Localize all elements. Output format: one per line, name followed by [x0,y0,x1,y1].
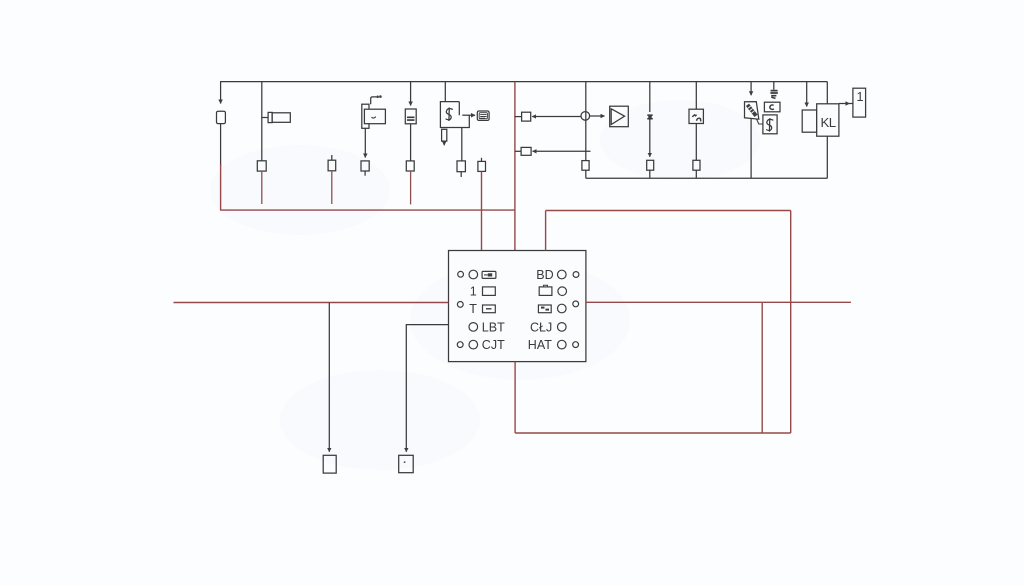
wire drop diode column [649,82,651,112]
relay box e [764,102,780,112]
connector C5 [406,161,414,171]
connector C7 [478,161,486,171]
fusible link FL1 [745,102,759,120]
wire stub below connector C6 [460,172,462,177]
wire branch to switch S2 [757,119,763,124]
wire drop column 2 [261,82,263,161]
wire from vertical to connector C9 arrow [533,150,591,152]
wire below fuse [220,124,222,166]
wire stub above connector C7 [481,158,483,162]
switch S2 box [763,115,777,134]
wire fusible link to bottom bus [750,119,752,179]
wire C11 to bottom bus [649,170,651,178]
connector P1 [323,455,336,473]
pin O circles left [469,270,478,279]
pin small circles left [458,271,464,277]
svg-text:CŁJ: CŁJ [530,320,552,334]
connector C2 [257,161,266,171]
svg-text:1: 1 [470,285,477,299]
wire red branch vertical [761,302,763,433]
wire drop to connector P1 [328,303,330,452]
wire motor to connector C4 [364,128,366,157]
switch S1 glyph [446,108,453,122]
wire C10 to bottom bus [585,170,587,178]
wire stub below connector C4 [364,171,366,176]
wire stub to connector C9 [515,150,521,152]
switch S1 pin [442,129,447,145]
wire drop to fuse F1 [220,82,222,104]
control unit pins and labels [457,268,579,352]
control unit box [449,251,586,362]
icon row2 left [483,287,496,296]
connector C4 [361,161,369,171]
wire drop to fusible link [750,82,752,96]
wire pigtail with terminals on motor [371,95,382,104]
wire red tail below connector C5 [410,171,412,204]
wire red main horizontal left [174,302,449,304]
svg-text:BD: BD [536,268,553,282]
icon row1 left [482,271,496,278]
pin O circles right [558,270,567,279]
connector C9 [521,147,531,155]
wire stub above connector C3 [331,155,333,160]
connector C6 [457,161,465,172]
connector C12 [693,160,700,170]
wire node to connector C8 arrow [532,116,581,118]
heater element [477,111,489,120]
svg-text:T: T [469,302,477,316]
wire stub to lighter component [262,117,268,119]
wire red lower part [220,164,222,210]
wire red ground bus left section [220,209,515,211]
svg-text:CJT: CJT [482,338,505,352]
horn H1 [610,106,629,127]
wire red loop top horizontal [546,210,791,212]
wire red feed 3 to control unit [545,211,547,251]
wire drop sensor column [695,82,697,110]
fuse F1 [217,111,226,123]
wire diode to connector C11 [649,120,651,157]
wire node to horn arrow [589,115,604,117]
connector C11 [647,160,654,170]
wire drop column 5 [410,82,412,106]
relay KL [817,104,839,136]
icon row2 right [539,285,552,295]
svg-text:LBT: LBT [482,320,505,334]
wire KL to connector 1 [839,101,853,105]
flasher unit [405,109,416,124]
connector C8 [522,112,531,121]
wire red loop bottom horizontal [515,432,791,434]
switch S2 glyph [766,118,773,132]
wire top supply bus [220,81,827,83]
wire red feed C7 to control unit [481,171,483,250]
wire red tail below connector C3 [331,171,333,204]
svg-text:HAT: HAT [528,338,552,352]
interface box [802,110,817,132]
wire bottom ground bus [586,177,828,179]
wire control unit to connector P2 [406,325,448,452]
wire flasher to connector C5 [410,124,412,161]
wire stub to connector C8 [515,116,522,118]
wire drop to interface box [806,82,808,107]
wire switch to heater [462,114,475,116]
switch S1 box [440,102,469,128]
diode D1 [647,114,652,119]
wire drop to switch S1 [444,82,446,102]
wire red main horizontal right [586,301,851,303]
svg-text:KL: KL [821,115,836,130]
wire red loop right vertical [790,211,792,434]
connector P2 [399,455,414,472]
wire red control unit bottom drop [514,362,516,433]
ground antenna symbol [770,82,777,99]
wire KL bottom to bus [826,136,828,178]
connector C3 [328,160,336,171]
wire sensor to connector C12 [695,123,697,160]
component cigarette lighter [268,112,290,122]
svg-text:1: 1 [857,90,864,104]
wire bus to KL top [826,82,828,104]
connector C10 [582,161,589,171]
wire red tail below connector C2 [261,171,263,204]
wire switch S1 to connector C6 [461,128,463,161]
wire C12 to bottom bus [695,170,697,178]
icon row3 right [538,305,551,313]
wire red main feed from bus to control unit [514,82,516,251]
junction node A [581,112,590,121]
motor M1 body [362,104,386,128]
icon row3 left [483,305,496,313]
connector block 1 [853,88,866,117]
pin small circles right [573,272,579,278]
wire vertical through node A [585,82,587,161]
sensor B1 [689,109,703,123]
